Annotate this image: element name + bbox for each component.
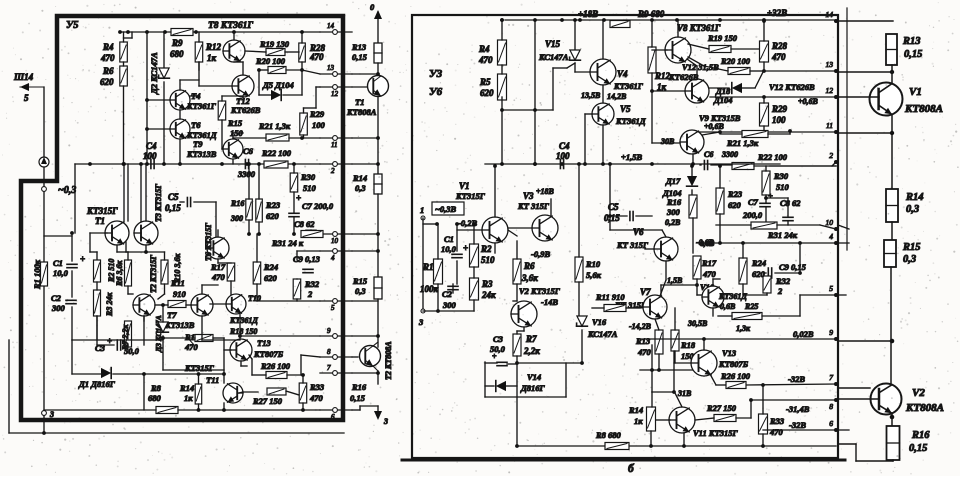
- svg-text:0,3: 0,3: [355, 286, 366, 296]
- svg-text:С2: С2: [51, 293, 62, 303]
- svg-text:470: 470: [637, 347, 652, 357]
- svg-text:R9 680: R9 680: [637, 9, 665, 19]
- svg-text:-32В: -32В: [789, 420, 806, 430]
- svg-text:R32: R32: [775, 276, 791, 286]
- svg-text:R30: R30: [300, 172, 316, 182]
- svg-text:~0,3: ~0,3: [58, 185, 76, 196]
- svg-text:R33: R33: [309, 382, 325, 392]
- svg-text:V3: V3: [523, 191, 534, 201]
- svg-text:10: 10: [331, 237, 339, 245]
- svg-text:R21 1,3к: R21 1,3к: [258, 121, 291, 131]
- svg-text:КТ807Б: КТ807Б: [718, 359, 749, 369]
- svg-text:0,3: 0,3: [906, 204, 919, 215]
- svg-text:V16: V16: [592, 317, 607, 327]
- svg-text:R27 150: R27 150: [252, 396, 283, 406]
- svg-text:13: 13: [826, 60, 834, 69]
- svg-text:+: +: [768, 191, 773, 201]
- svg-text:Т1: Т1: [355, 97, 364, 107]
- svg-text:С1: С1: [53, 258, 63, 268]
- svg-text:Т7: Т7: [167, 310, 177, 320]
- svg-text:+: +: [296, 193, 301, 203]
- svg-text:R22 100: R22 100: [261, 148, 292, 158]
- svg-text:Д1 Д816Г: Д1 Д816Г: [78, 379, 116, 389]
- svg-text:470: 470: [309, 52, 324, 62]
- svg-text:V6: V6: [633, 227, 644, 237]
- svg-text:R15: R15: [902, 242, 921, 253]
- svg-text:У6: У6: [429, 86, 443, 98]
- svg-text:9: 9: [829, 328, 833, 337]
- svg-text:Т8 КТ361Г: Т8 КТ361Г: [208, 21, 253, 31]
- svg-text:0,15: 0,15: [904, 49, 922, 60]
- svg-text:8: 8: [327, 348, 331, 356]
- svg-text:+0,6В: +0,6В: [704, 122, 725, 131]
- svg-text:300: 300: [51, 303, 66, 313]
- svg-text:1,5В: 1,5В: [667, 276, 683, 285]
- svg-text:Т11: Т11: [206, 375, 219, 385]
- svg-text:R30: R30: [773, 171, 789, 181]
- svg-text:R29: R29: [309, 109, 325, 119]
- svg-text:Т6: Т6: [191, 120, 201, 130]
- svg-text:620: 620: [728, 200, 742, 210]
- svg-text:200,0: 200,0: [742, 210, 763, 220]
- svg-text:КТ361Г: КТ361Г: [613, 81, 644, 91]
- svg-text:2: 2: [829, 151, 833, 160]
- svg-text:R29: R29: [771, 104, 788, 114]
- svg-text:R25: R25: [744, 302, 758, 311]
- svg-text:С3: С3: [493, 334, 504, 344]
- svg-text:0,15: 0,15: [604, 213, 620, 223]
- svg-text:14: 14: [826, 10, 834, 19]
- svg-text:У5: У5: [66, 20, 79, 31]
- svg-text:+: +: [492, 352, 497, 361]
- svg-text:4: 4: [331, 254, 335, 262]
- svg-text:0,3: 0,3: [355, 183, 366, 193]
- svg-text:R8: R8: [150, 383, 162, 393]
- svg-text:10,0: 10,0: [441, 244, 457, 254]
- svg-text:470: 470: [309, 393, 324, 403]
- svg-text:620: 620: [266, 211, 280, 221]
- svg-text:14,2В: 14,2В: [607, 92, 627, 101]
- svg-text:V2: V2: [912, 387, 925, 399]
- svg-text:12: 12: [331, 90, 339, 98]
- svg-text:R27 150: R27 150: [706, 403, 737, 413]
- svg-text:R13: R13: [351, 42, 367, 52]
- svg-text:КС147А: КС147А: [538, 52, 569, 62]
- svg-text:С6: С6: [704, 150, 713, 159]
- svg-text:11: 11: [826, 121, 833, 130]
- svg-text:2: 2: [777, 286, 783, 296]
- svg-text:300: 300: [442, 300, 457, 310]
- svg-text:С4: С4: [146, 141, 157, 151]
- svg-text:6: 6: [829, 419, 833, 428]
- svg-text:R16: R16: [666, 197, 682, 207]
- svg-text:Т6 КТ315Г: Т6 КТ315Г: [204, 223, 213, 261]
- svg-text:R26 100: R26 100: [260, 361, 291, 371]
- svg-text:8: 8: [829, 402, 833, 411]
- svg-text:+18В: +18В: [536, 187, 555, 196]
- svg-text:КТ808А: КТ808А: [904, 103, 943, 115]
- svg-text:5,6к: 5,6к: [586, 270, 602, 280]
- svg-text:С7 200,0: С7 200,0: [302, 201, 334, 211]
- svg-text:-31,4В: -31,4В: [786, 404, 810, 414]
- svg-text:24к: 24к: [481, 290, 496, 300]
- svg-text:R4: R4: [102, 42, 114, 52]
- svg-text:КТ807Б: КТ807Б: [253, 349, 284, 359]
- svg-text:КТ315Г: КТ315Г: [86, 206, 118, 216]
- svg-text:R18: R18: [680, 340, 696, 350]
- svg-text:R17: R17: [701, 258, 717, 268]
- svg-text:+32В: +32В: [767, 8, 787, 18]
- svg-text:КТ 315Г: КТ 315Г: [517, 201, 550, 211]
- svg-text:R3 24к: R3 24к: [105, 292, 114, 317]
- svg-text:R14: R14: [352, 173, 367, 183]
- svg-text:Д816Г: Д816Г: [520, 383, 546, 393]
- svg-text:30В: 30В: [660, 137, 675, 146]
- svg-text:V14: V14: [527, 372, 541, 382]
- svg-text:R16: R16: [911, 430, 930, 441]
- svg-text:680: 680: [170, 49, 184, 59]
- svg-text:R31 24к: R31 24к: [767, 230, 798, 240]
- svg-text:1к: 1к: [207, 53, 217, 63]
- svg-text:13,5В: 13,5В: [581, 91, 601, 100]
- svg-text:КТ626В: КТ626В: [230, 105, 261, 115]
- svg-text:R2: R2: [480, 244, 492, 254]
- svg-text:КТ315Г: КТ315Г: [184, 363, 215, 373]
- svg-text:У3: У3: [429, 68, 443, 80]
- svg-text:R1: R1: [422, 262, 434, 272]
- svg-text:R6: R6: [523, 261, 535, 271]
- svg-text:Д5 Д104: Д5 Д104: [262, 80, 294, 90]
- svg-text:680: 680: [148, 393, 162, 403]
- svg-text:КТ808А: КТ808А: [905, 402, 944, 414]
- svg-text:V8 КТ361Г: V8 КТ361Г: [677, 23, 721, 33]
- svg-text:620: 620: [264, 273, 278, 283]
- svg-text:R12: R12: [205, 42, 222, 52]
- svg-text:14: 14: [327, 22, 335, 30]
- svg-text:R13: R13: [902, 36, 921, 47]
- svg-text:+: +: [463, 243, 468, 253]
- svg-text:1,3к: 1,3к: [736, 324, 751, 333]
- svg-text:V13: V13: [722, 348, 737, 358]
- svg-text:КТ808А: КТ808А: [346, 107, 377, 117]
- svg-text:R11: R11: [170, 278, 185, 288]
- svg-text:-32В: -32В: [788, 374, 805, 384]
- svg-text:3: 3: [418, 317, 424, 327]
- svg-text:300: 300: [666, 207, 681, 217]
- svg-text:1к: 1к: [184, 393, 193, 403]
- svg-text:510: 510: [481, 255, 495, 265]
- svg-text:С4: С4: [559, 141, 570, 151]
- svg-text:V5: V5: [620, 104, 631, 114]
- svg-text:R18 150: R18 150: [229, 327, 257, 336]
- svg-text:0,15: 0,15: [165, 203, 181, 213]
- svg-text:V12 31,5В: V12 31,5В: [682, 62, 719, 72]
- svg-text:КС147А: КС147А: [587, 329, 618, 339]
- svg-text:3,6к: 3,6к: [521, 273, 538, 283]
- svg-text:V15: V15: [545, 39, 561, 49]
- svg-text:R4: R4: [478, 44, 490, 54]
- svg-text:R14: R14: [179, 383, 194, 393]
- svg-text:5: 5: [24, 93, 29, 103]
- svg-text:3300: 3300: [721, 150, 738, 159]
- svg-text:300: 300: [230, 214, 243, 223]
- svg-text:470: 470: [100, 53, 115, 63]
- svg-text:1к: 1к: [634, 416, 643, 426]
- svg-text:V12 КТ626В: V12 КТ626В: [769, 82, 815, 92]
- svg-text:R23: R23: [727, 189, 743, 199]
- svg-text:V1: V1: [459, 181, 470, 191]
- svg-text:R8 680: R8 680: [595, 430, 622, 440]
- svg-text:+1,5В: +1,5В: [621, 152, 642, 162]
- svg-text:R14: R14: [905, 192, 924, 203]
- svg-text:510: 510: [303, 183, 317, 193]
- svg-text:10: 10: [826, 218, 834, 227]
- svg-text:V11 КТ315Г: V11 КТ315Г: [693, 428, 739, 438]
- svg-text:С6: С6: [243, 146, 254, 156]
- svg-text:9: 9: [327, 327, 331, 335]
- svg-text:3: 3: [49, 410, 54, 419]
- svg-text:С8 62: С8 62: [780, 198, 801, 208]
- svg-text:620: 620: [752, 269, 766, 279]
- svg-text:13: 13: [327, 64, 335, 72]
- svg-text:КТ313В: КТ313В: [186, 149, 217, 159]
- svg-text:0,02В: 0,02В: [793, 329, 814, 339]
- svg-text:Т1: Т1: [95, 216, 105, 226]
- svg-text:Т2 КТ315Г: Т2 КТ315Г: [149, 255, 158, 293]
- svg-text:Ш14: Ш14: [13, 72, 34, 82]
- svg-text:R26 100: R26 100: [720, 371, 751, 381]
- svg-text:Т3 КТ315Г: Т3 КТ315Г: [154, 184, 163, 222]
- svg-text:6: 6: [331, 413, 335, 421]
- svg-text:Д2 КС147А: Д2 КС147А: [149, 52, 159, 95]
- svg-text:V1: V1: [909, 86, 922, 98]
- svg-text:5: 5: [829, 284, 833, 293]
- svg-text:R11 910: R11 910: [595, 292, 625, 302]
- svg-text:-14В: -14В: [541, 297, 558, 307]
- svg-text:С9 0,15: С9 0,15: [779, 262, 807, 272]
- svg-text:30,5В: 30,5В: [687, 319, 708, 328]
- svg-text:0,3: 0,3: [903, 254, 916, 265]
- svg-text:Т9: Т9: [193, 139, 203, 149]
- svg-text:Д3 КС147А: Д3 КС147А: [154, 315, 163, 353]
- svg-text:R23: R23: [265, 200, 281, 210]
- svg-text:470: 470: [702, 269, 717, 279]
- svg-text:0,15: 0,15: [350, 393, 366, 403]
- svg-text:С5: С5: [168, 192, 179, 202]
- svg-text:470: 470: [769, 427, 784, 437]
- svg-text:620: 620: [480, 88, 494, 98]
- svg-text:0,6В: 0,6В: [700, 239, 714, 248]
- svg-text:0,2В: 0,2В: [665, 218, 681, 227]
- svg-text:R6 3,6к: R6 3,6к: [115, 260, 124, 287]
- svg-text:620: 620: [100, 77, 114, 87]
- svg-text:R31 24 к: R31 24 к: [271, 238, 304, 248]
- svg-text:R14: R14: [628, 405, 643, 415]
- svg-text:V7: V7: [640, 287, 651, 297]
- svg-text:2,2к: 2,2к: [523, 346, 540, 356]
- svg-text:С8 62: С8 62: [294, 219, 315, 229]
- svg-text:КТ361Д: КТ361Д: [718, 292, 747, 301]
- svg-text:~0,3В: ~0,3В: [435, 204, 456, 214]
- svg-text:R15: R15: [352, 276, 368, 286]
- svg-text:КТ361Г: КТ361Г: [186, 101, 217, 111]
- svg-text:R15: R15: [227, 118, 243, 128]
- svg-text:100: 100: [772, 115, 786, 125]
- svg-text:+0,6В: +0,6В: [798, 97, 819, 106]
- svg-text:+18В: +18В: [578, 9, 598, 19]
- svg-text:R10: R10: [585, 259, 601, 269]
- svg-text:2: 2: [307, 289, 313, 299]
- svg-text:0,6В: 0,6В: [720, 302, 736, 311]
- svg-text:-14,2В: -14,2В: [629, 322, 652, 331]
- svg-text:С1: С1: [444, 234, 454, 244]
- svg-text:-0,9В: -0,9В: [531, 249, 550, 259]
- svg-text:КТ626В: КТ626В: [668, 72, 699, 82]
- svg-text:R16: R16: [351, 382, 367, 392]
- svg-text:Д17: Д17: [665, 176, 681, 186]
- svg-text:R21 1,3к: R21 1,3к: [726, 138, 759, 148]
- svg-text:КТ361Д: КТ361Д: [229, 316, 258, 325]
- svg-text:100: 100: [556, 151, 570, 161]
- svg-text:R22 100: R22 100: [757, 152, 788, 162]
- svg-text:1: 1: [420, 205, 424, 215]
- svg-text:R28: R28: [771, 41, 788, 51]
- svg-text:КТ315Г: КТ315Г: [455, 191, 486, 201]
- svg-text:R20 100: R20 100: [720, 56, 751, 66]
- svg-text:7: 7: [829, 373, 833, 382]
- svg-text:V2 КТ315Г: V2 КТ315Г: [519, 286, 561, 296]
- svg-text:3: 3: [383, 417, 388, 426]
- svg-text:10,0: 10,0: [53, 268, 69, 278]
- svg-text:470: 470: [478, 55, 493, 65]
- svg-text:R16: R16: [230, 199, 244, 208]
- svg-text:R13: R13: [635, 336, 651, 346]
- svg-text:R7: R7: [525, 334, 537, 344]
- svg-text:С7: С7: [748, 197, 759, 207]
- svg-text:0,15: 0,15: [909, 443, 927, 454]
- svg-text:Т10: Т10: [248, 294, 261, 303]
- svg-text:R6: R6: [102, 66, 114, 76]
- svg-text:R19 130: R19 130: [259, 39, 290, 49]
- svg-text:11: 11: [331, 141, 337, 149]
- svg-text:470: 470: [184, 342, 199, 352]
- svg-text:КТ361Д: КТ361Д: [615, 116, 647, 126]
- svg-text:Т2 КТ808А: Т2 КТ808А: [384, 341, 393, 380]
- svg-text:910: 910: [173, 289, 187, 299]
- svg-text:0,15: 0,15: [352, 52, 368, 62]
- svg-text:3300: 3300: [237, 169, 256, 179]
- svg-text:КТ 315Г: КТ 315Г: [616, 240, 649, 250]
